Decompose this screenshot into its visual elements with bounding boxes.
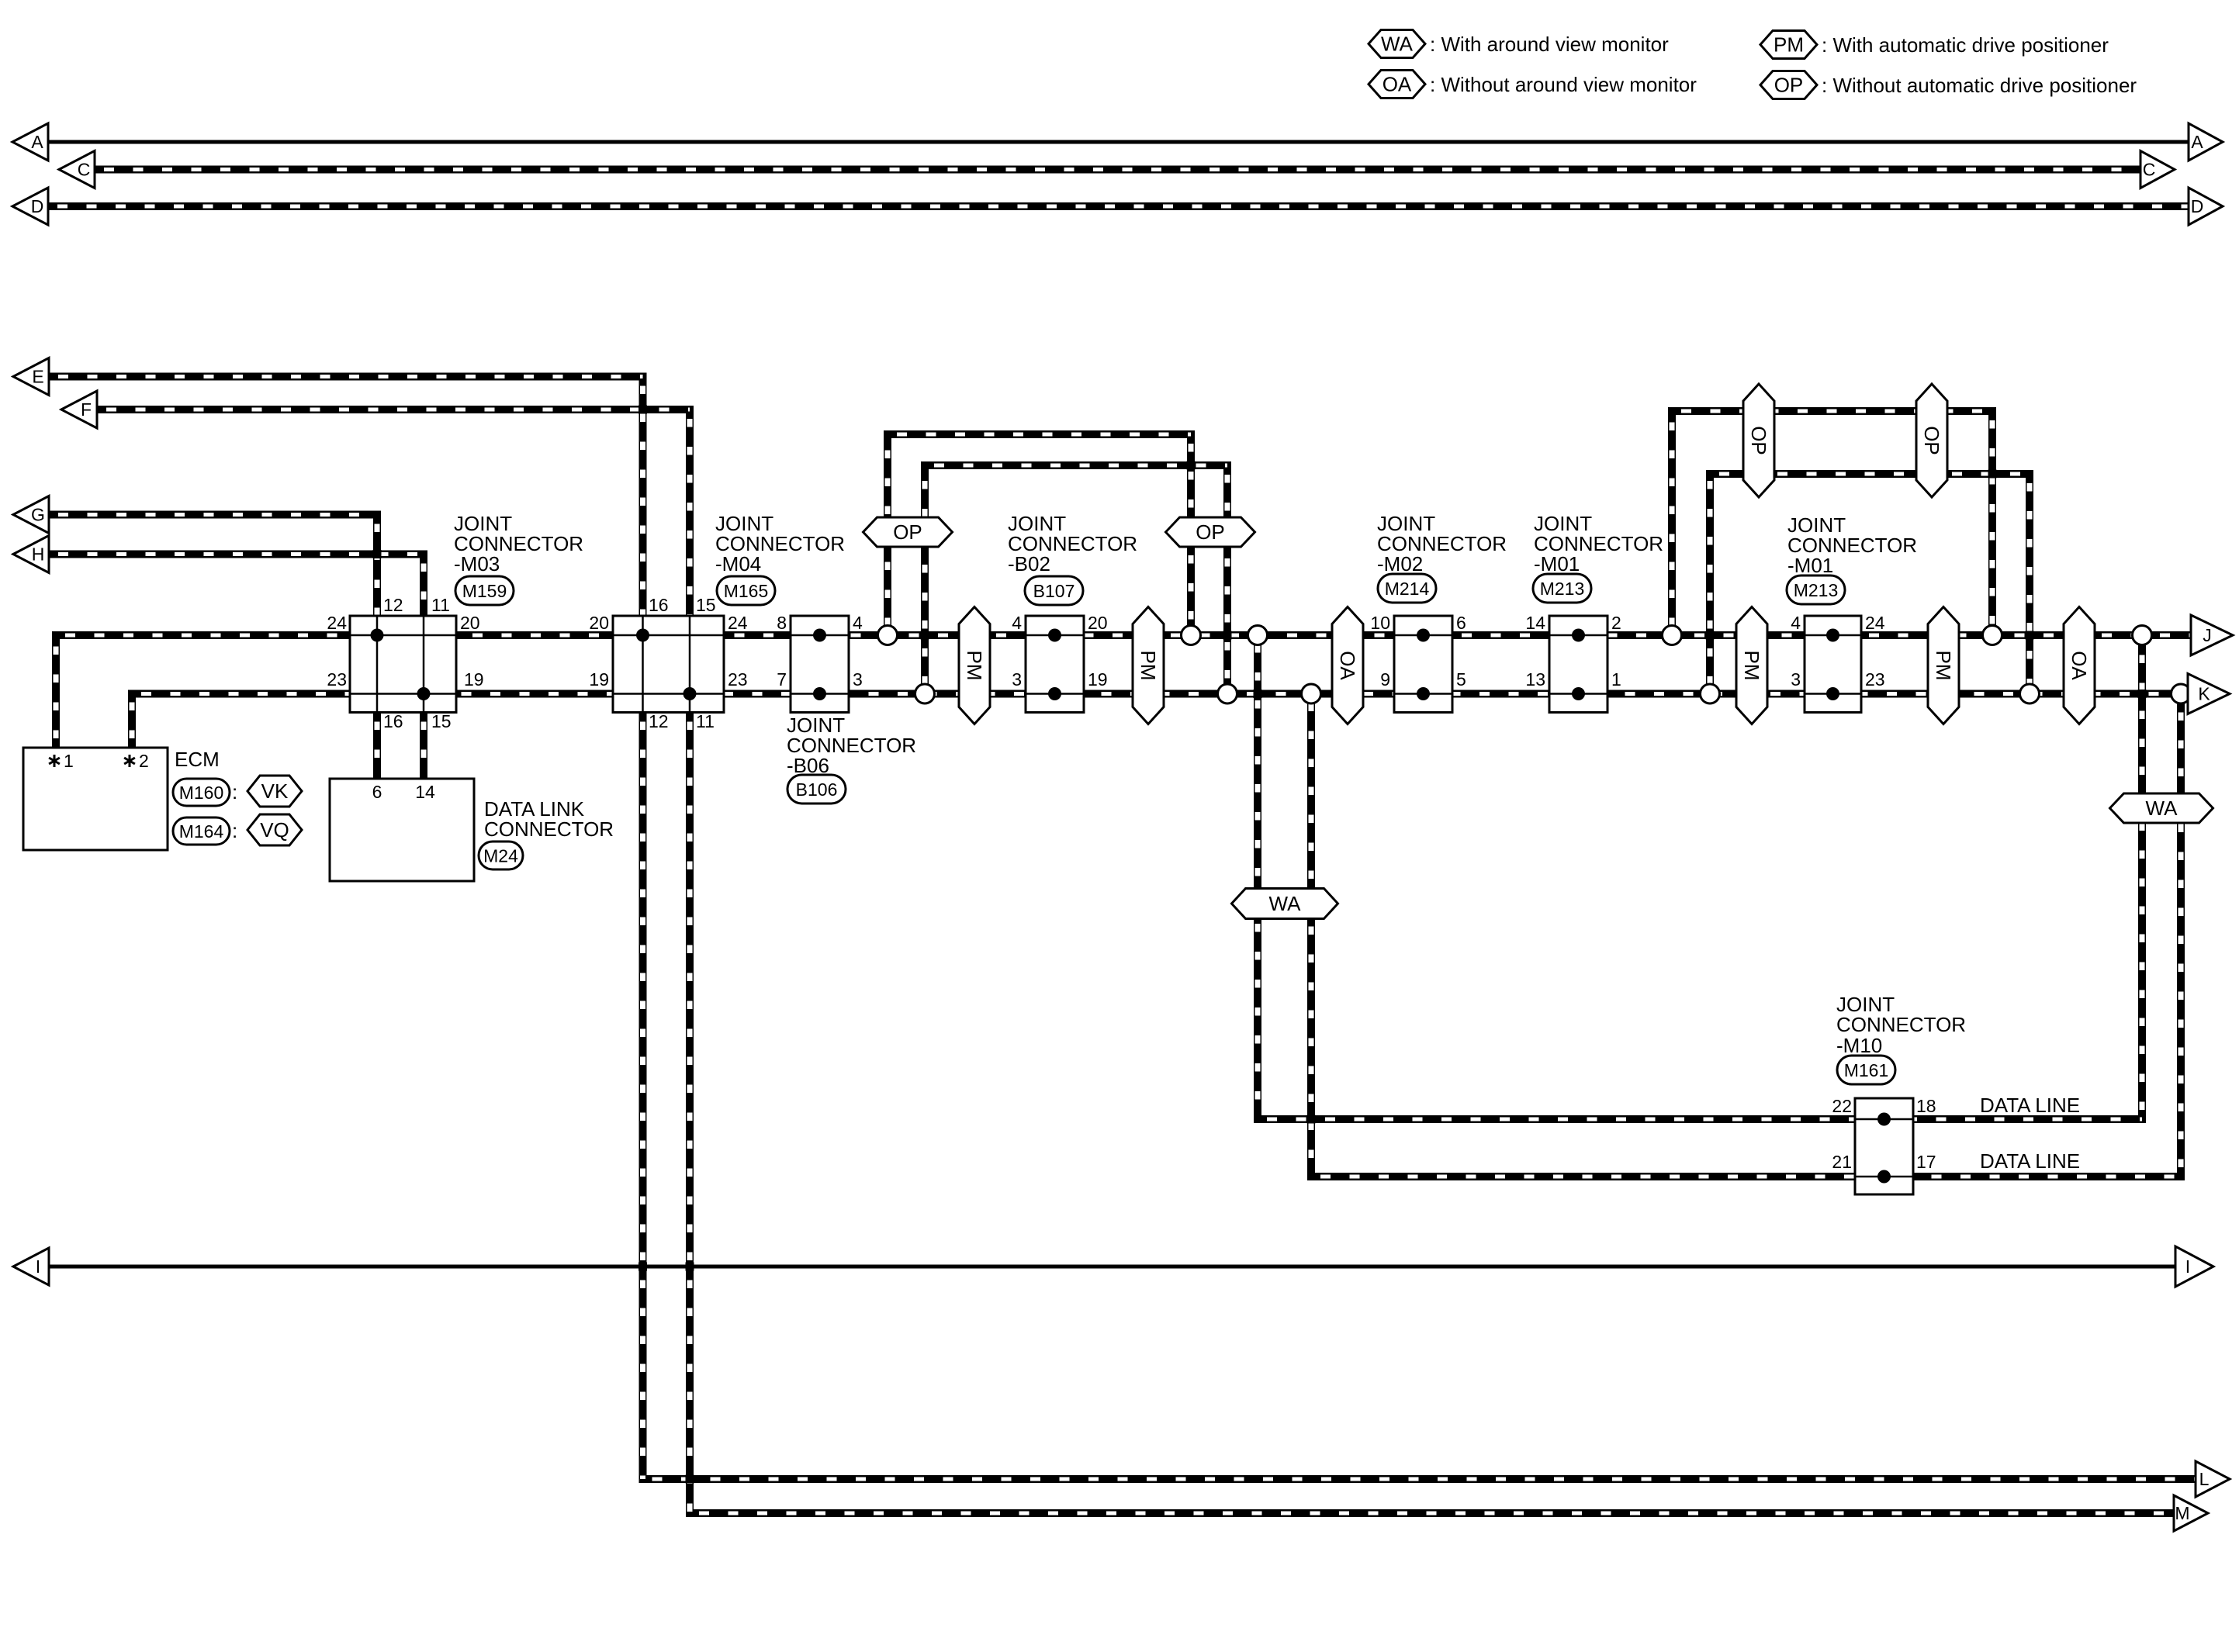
svg-text:8: 8	[777, 613, 787, 633]
svg-text:16: 16	[649, 595, 669, 615]
connector ref oval B106	[787, 775, 846, 804]
wire junction patch loop2 x J bus	[1223, 631, 1232, 640]
wire OP bypass loop 1 (J side)	[888, 434, 1191, 635]
svg-text:11: 11	[696, 711, 715, 731]
svg-text:4: 4	[1791, 613, 1801, 633]
svg-text:13: 13	[1525, 669, 1545, 689]
wire A page rail (solid)	[48, 140, 2189, 144]
wire ECM pin*1 up to J bus / J bus (CAN-H)	[56, 635, 2192, 748]
svg-text:10: 10	[1370, 613, 1390, 633]
svg-text:-M01: -M01	[1787, 554, 1833, 577]
option tag VQ variant tag	[247, 814, 302, 845]
svg-text:14: 14	[415, 782, 435, 802]
joint connector M02 (M214)	[1394, 616, 1452, 713]
svg-text:WA: WA	[1381, 33, 1414, 56]
connector ref oval B107	[1025, 576, 1083, 605]
svg-text:F: F	[81, 399, 92, 420]
node K2	[1218, 684, 1237, 703]
connector ref oval M160	[173, 779, 230, 806]
svg-text:1: 1	[1611, 669, 1621, 689]
svg-text:G: G	[31, 505, 45, 525]
svg-text:L: L	[2199, 1469, 2210, 1489]
option tag OA #2	[2064, 607, 2095, 724]
svg-text:OA: OA	[2068, 651, 2091, 680]
page connector arrow M (right)	[2174, 1495, 2208, 1531]
svg-text:K: K	[2198, 684, 2210, 704]
svg-text:20: 20	[589, 613, 609, 633]
wire junction patch WA1 vert x K bus	[1254, 689, 1262, 698]
wire OP bypass loop 2 (K side)	[925, 465, 1227, 694]
page connector arrow A (left)	[12, 123, 48, 161]
svg-text:M164: M164	[179, 821, 224, 842]
wire OP bypass loop 3 (J side)	[1672, 411, 1992, 635]
wire junction patch E vert x I rail	[638, 1263, 647, 1271]
svg-text:D: D	[31, 196, 44, 216]
svg-text:23: 23	[728, 669, 748, 689]
svg-text:9: 9	[1380, 669, 1390, 689]
svg-text:4: 4	[1012, 613, 1022, 633]
option tag OA #1	[1332, 607, 1363, 724]
page connector arrow A (right)	[2189, 123, 2223, 161]
page connector arrow L (right)	[2196, 1461, 2230, 1497]
wire G branch to M03 pin12	[49, 515, 377, 617]
svg-text:5: 5	[1456, 669, 1466, 689]
connector ref oval M213 #2	[1787, 575, 1845, 604]
svg-text::: :	[232, 819, 237, 842]
wire D page rail	[48, 202, 2189, 210]
svg-text:B107: B107	[1033, 581, 1075, 601]
svg-text:: With automatic drive positio: : With automatic drive positioner	[1822, 33, 2109, 57]
page connector arrow I (left)	[13, 1248, 49, 1285]
svg-text:6: 6	[1456, 613, 1466, 633]
joint connector M10 (M161)	[1855, 1098, 1913, 1194]
option tag legend OA	[1369, 71, 1425, 98]
option tag PM #2	[1133, 607, 1164, 724]
page connector arrow C (right)	[2140, 151, 2175, 188]
svg-text:24: 24	[728, 613, 748, 633]
option tag WA #2	[2110, 793, 2213, 823]
page connector arrow E (left)	[13, 358, 49, 396]
joint connector B06 (B106)	[791, 616, 849, 713]
svg-text:H: H	[32, 544, 45, 565]
svg-text:20: 20	[460, 613, 480, 633]
svg-text:: With around view monitor: : With around view monitor	[1430, 33, 1669, 56]
svg-text:15: 15	[696, 595, 716, 615]
page connector arrow H (left)	[13, 536, 49, 573]
wire junction patch F vert x I rail	[686, 1263, 694, 1271]
joint connector M04 (M165)	[613, 616, 724, 713]
joint connector M01 #1 (M213)	[1549, 616, 1607, 713]
svg-text:2: 2	[1611, 613, 1621, 633]
wire junction patch data line1 x wire1690	[1307, 1115, 1316, 1124]
option tag OP horizontal #2	[1166, 517, 1255, 547]
svg-text:VK: VK	[261, 779, 289, 803]
svg-text:M24: M24	[483, 846, 518, 866]
page connector arrow K (right)	[2188, 674, 2230, 714]
svg-text:E: E	[32, 367, 43, 387]
pin ECM *2	[124, 751, 149, 771]
svg-text:OP: OP	[1774, 74, 1804, 97]
svg-text:7: 7	[777, 669, 787, 689]
wire WA data line 1 (J side via M10)	[1258, 635, 2142, 1119]
node J1	[878, 626, 898, 645]
label JOINT CONNECTOR -M01 #2	[1787, 513, 1917, 577]
node J5	[1983, 626, 2002, 645]
svg-text:18: 18	[1916, 1096, 1936, 1116]
option tag PM #4	[1928, 607, 1959, 724]
node K6	[2172, 684, 2191, 703]
node J4	[1663, 626, 1682, 645]
wire M04 pin11 down to M rail	[690, 713, 2174, 1514]
svg-text:-M10: -M10	[1836, 1034, 1882, 1057]
option tag WA #1	[1232, 889, 1338, 919]
svg-text:B106: B106	[796, 779, 838, 800]
svg-text:DATA LINE: DATA LINE	[1980, 1094, 2080, 1117]
svg-text:M: M	[2175, 1503, 2189, 1523]
svg-text:14: 14	[1525, 613, 1545, 633]
svg-text:M165: M165	[724, 581, 769, 601]
connector ref oval M214	[1378, 574, 1436, 603]
svg-text:15: 15	[431, 711, 452, 731]
svg-text:A: A	[31, 132, 43, 152]
wire junction patch loop3 x loop4	[1988, 470, 1997, 479]
svg-text:-B06: -B06	[787, 754, 829, 777]
wire junction patch loop2 left vert x J bus	[921, 631, 929, 640]
page connector arrow G (left)	[13, 496, 49, 534]
svg-text:WA: WA	[1269, 892, 1302, 915]
label JOINT CONNECTOR -M02	[1377, 512, 1507, 575]
svg-text:21: 21	[1832, 1152, 1852, 1172]
option tag PM #1	[959, 607, 990, 724]
svg-text:OP: OP	[1920, 426, 1943, 455]
label ECM	[175, 748, 220, 771]
label DATA LINK CONNECTOR	[484, 797, 614, 841]
svg-text:OA: OA	[1336, 651, 1359, 680]
svg-text:J: J	[2203, 625, 2212, 645]
svg-text:11: 11	[431, 595, 450, 615]
svg-text:M159: M159	[462, 581, 507, 601]
svg-text:19: 19	[1088, 669, 1108, 689]
svg-text:12: 12	[383, 595, 403, 615]
svg-text:23: 23	[1865, 669, 1885, 689]
page connector arrow J (right)	[2191, 615, 2233, 655]
svg-text:23: 23	[327, 669, 347, 689]
node K1	[915, 684, 935, 703]
wire E branch to M04 pin16	[49, 377, 643, 617]
svg-text:-M02: -M02	[1377, 552, 1423, 575]
svg-text::: :	[232, 780, 237, 804]
svg-text:OA: OA	[1383, 73, 1412, 96]
page connector arrow C (left)	[59, 151, 95, 188]
svg-text:20: 20	[1088, 613, 1108, 633]
page connector arrow D (right)	[2189, 188, 2223, 225]
wire junction patch WA2 vert x K bus	[2138, 689, 2147, 698]
svg-text:: Without around view monitor: : Without around view monitor	[1430, 73, 1697, 96]
svg-text:M213: M213	[1540, 579, 1585, 599]
connector ref oval M213 #1	[1533, 574, 1591, 603]
svg-text:PM: PM	[1740, 651, 1763, 681]
svg-text:24: 24	[1865, 613, 1885, 633]
node K5	[2020, 684, 2040, 703]
svg-text:M214: M214	[1385, 579, 1430, 599]
wire junction patch loop4 left vert x J bus	[1706, 631, 1715, 640]
svg-text:DATA LINE: DATA LINE	[1980, 1149, 2080, 1173]
option tag legend PM	[1760, 31, 1817, 59]
svg-text:C: C	[2143, 160, 2156, 180]
svg-text:OP: OP	[1747, 426, 1770, 455]
ECM box	[23, 748, 168, 850]
wire junction patch F vert x L rail	[686, 1475, 694, 1484]
svg-text:-M01: -M01	[1534, 552, 1580, 575]
wire WA data line 2 (K side via M10)	[1311, 694, 2181, 1177]
node J3	[1248, 626, 1268, 645]
wire M04 pin12 down to L rail	[643, 713, 2196, 1480]
svg-text:VQ: VQ	[260, 818, 289, 842]
svg-text:M213: M213	[1794, 580, 1839, 600]
label DATA LINE #1	[1980, 1094, 2080, 1117]
svg-text:CONNECTOR: CONNECTOR	[1836, 1013, 1966, 1036]
option tag PM #3	[1736, 607, 1767, 724]
svg-text:D: D	[2191, 196, 2204, 216]
wire junction patch loop4 right vert x J bus	[2026, 631, 2034, 640]
node J2	[1182, 626, 1201, 645]
label JOINT CONNECTOR -M01 #1	[1534, 512, 1663, 575]
svg-text:12: 12	[649, 711, 669, 731]
svg-text:C: C	[78, 160, 91, 180]
svg-text:I: I	[36, 1256, 40, 1277]
svg-text:CONNECTOR: CONNECTOR	[484, 817, 614, 841]
wire M03 pin16 to DLC pin6	[373, 713, 381, 779]
svg-text:24: 24	[327, 613, 347, 633]
svg-text:6: 6	[372, 782, 382, 802]
connector ref oval M165	[717, 576, 775, 605]
page connector arrow F (left)	[61, 391, 97, 428]
label JOINT CONNECTOR -M03	[454, 512, 583, 575]
svg-text:3: 3	[1791, 669, 1801, 689]
page connector arrow D (left)	[12, 188, 48, 225]
svg-text:-M04: -M04	[715, 552, 761, 575]
node K4	[1701, 684, 1720, 703]
svg-text:19: 19	[589, 669, 609, 689]
wire junction patch G vert x H line	[373, 550, 382, 558]
label JOINT CONNECTOR -M04	[715, 512, 845, 575]
connector ref oval M164	[173, 817, 230, 845]
svg-text:OP: OP	[1196, 520, 1225, 544]
svg-text:19: 19	[464, 669, 484, 689]
svg-text:-M03: -M03	[454, 552, 500, 575]
node J6	[2133, 626, 2152, 645]
svg-text:22: 22	[1832, 1096, 1852, 1116]
connector ref oval M161	[1837, 1056, 1895, 1084]
label JOINT CONNECTOR -B02	[1008, 512, 1137, 575]
svg-text:M160: M160	[179, 783, 224, 803]
wire C page rail	[95, 166, 2140, 174]
wire junction patch loop1 right vert x loop2 line	[1187, 461, 1196, 470]
svg-text:PM: PM	[1932, 651, 1955, 681]
svg-text:3: 3	[853, 669, 863, 689]
wire M03 pin15 to DLC pin14	[420, 713, 427, 779]
option tag legend WA	[1369, 30, 1425, 58]
joint connector M03 (M159)	[350, 616, 456, 713]
svg-text:ECM: ECM	[175, 748, 220, 771]
svg-text:WA: WA	[2146, 797, 2178, 820]
wire ECM pin*2 up to K bus / K bus (CAN-L)	[132, 694, 2192, 748]
joint connector M01 #2 (M213)	[1805, 616, 1861, 713]
option tag OP horizontal #1	[863, 517, 953, 547]
svg-text:PM: PM	[1137, 651, 1160, 681]
wire OP bypass loop 4 (K side)	[1710, 474, 2030, 694]
svg-text:M161: M161	[1844, 1060, 1889, 1080]
svg-text:PM: PM	[1774, 33, 1804, 57]
svg-text:PM: PM	[963, 651, 986, 681]
svg-text:: Without automatic drive posi: : Without automatic drive positioner	[1822, 74, 2137, 97]
label DATA LINE #2	[1980, 1149, 2080, 1173]
connector ref oval M24	[479, 842, 523, 869]
label JOINT CONNECTOR -M10	[1836, 993, 1966, 1057]
wire I page rail (solid)	[48, 1265, 2176, 1269]
connector ref oval M159	[455, 576, 514, 605]
wire junction patch E vert x F line	[638, 406, 647, 414]
DATA LINK CONNECTOR box M24	[330, 779, 474, 881]
svg-text:1: 1	[64, 751, 74, 771]
option tag OP vertical #1	[1743, 384, 1774, 497]
svg-text:3: 3	[1012, 669, 1022, 689]
svg-text:17: 17	[1916, 1152, 1936, 1172]
svg-text:16: 16	[383, 711, 403, 731]
page connector arrow I (right)	[2175, 1246, 2213, 1287]
option tag VK variant tag	[247, 776, 302, 807]
option tag legend OP	[1760, 71, 1817, 99]
option tag OP vertical #2	[1916, 384, 1947, 497]
svg-text:2: 2	[139, 751, 149, 771]
wire F branch to M04 pin15	[97, 410, 690, 616]
svg-text:OP: OP	[893, 520, 922, 544]
joint connector B02 (B107)	[1026, 616, 1084, 713]
svg-text:4: 4	[853, 613, 863, 633]
svg-text:A: A	[2191, 132, 2203, 152]
node K3	[1302, 684, 1321, 703]
pin ECM *1	[49, 751, 74, 771]
svg-text:I: I	[2185, 1256, 2190, 1277]
wire H branch to M03 pin11	[49, 555, 424, 617]
label JOINT CONNECTOR -B06	[787, 714, 916, 777]
svg-text:-B02: -B02	[1008, 552, 1050, 575]
